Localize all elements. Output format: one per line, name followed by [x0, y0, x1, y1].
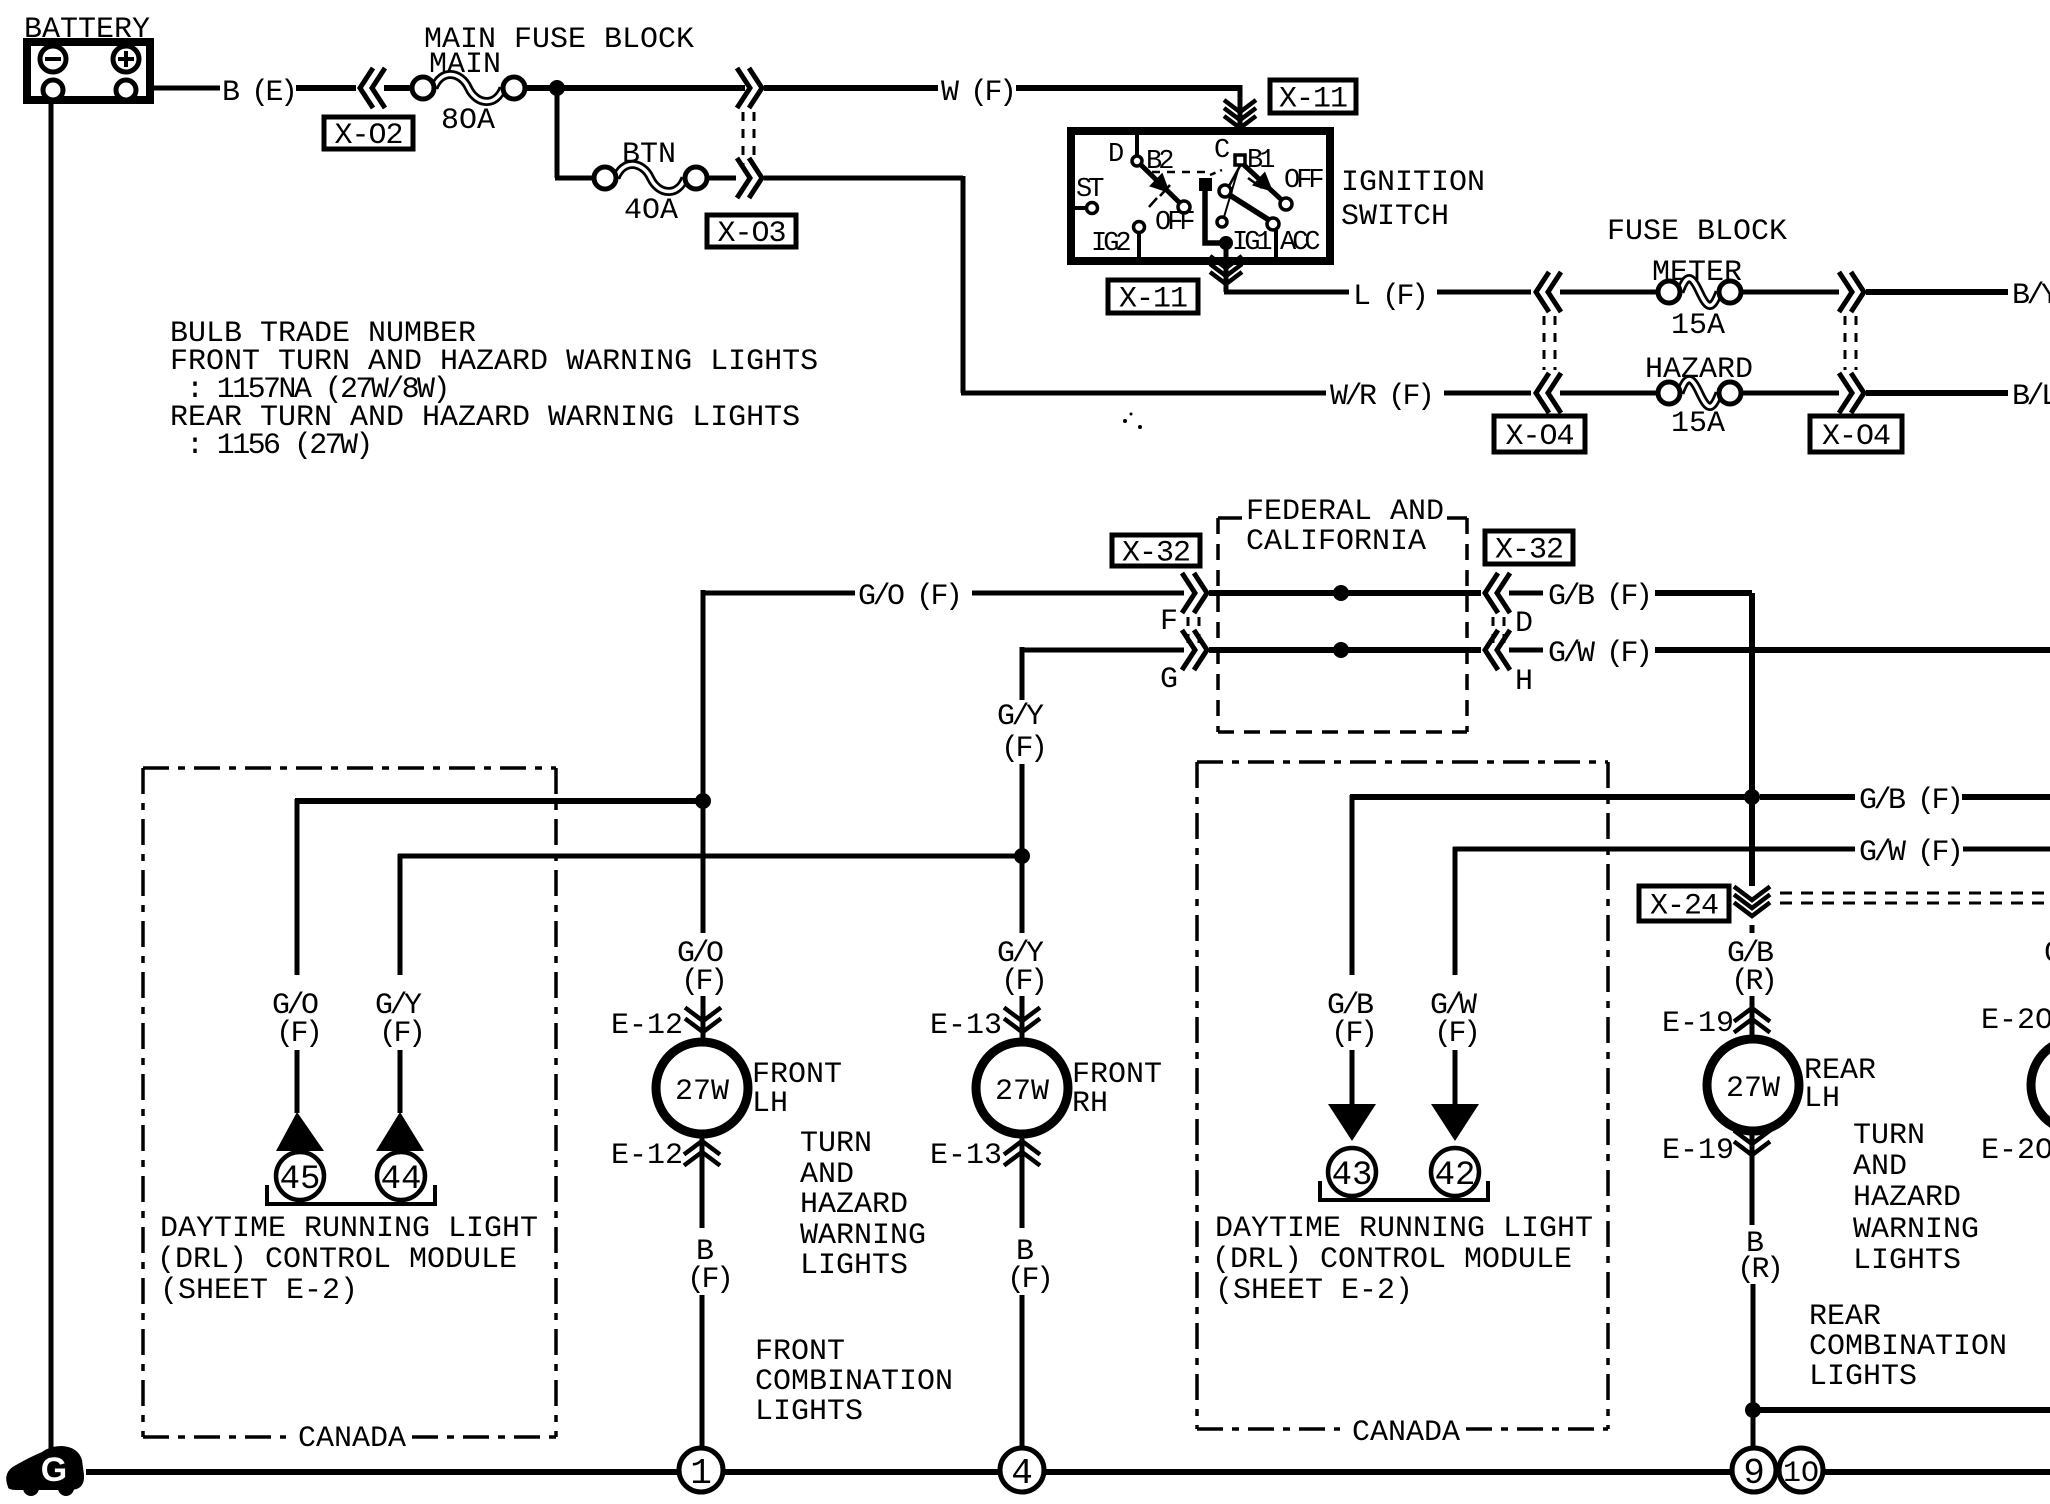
- svg-text:(F): (F): [1001, 732, 1045, 766]
- svg-text:E-2O: E-2O: [1981, 1004, 2050, 1038]
- svg-text:: 1156 (27W): : 1156 (27W): [186, 429, 371, 463]
- bulb FRONT LH: [656, 1042, 748, 1134]
- wire G/Y vertical upper: [1020, 650, 1025, 700]
- svg-text:27W: 27W: [995, 1075, 1049, 1109]
- contact mid: [1219, 185, 1231, 197]
- module pin circle 45: [276, 1152, 324, 1200]
- contact B2: [1132, 156, 1142, 166]
- svg-text:F: F: [1160, 605, 1178, 639]
- svg-text:B/Y: B/Y: [2012, 279, 2050, 313]
- wire module pin 45: [295, 799, 300, 975]
- wire G/W to right edge: [1655, 647, 2050, 653]
- wire ST stub: [1071, 206, 1088, 210]
- wire B(F) LH upper: [700, 1134, 705, 1228]
- wire BTN fuse to chevron: [707, 176, 736, 181]
- wire into federal box row1: [1209, 590, 1481, 596]
- svg-text:LH: LH: [752, 1087, 788, 1121]
- wire B(F) RH lower: [1020, 1295, 1025, 1450]
- svg-text:CANADA: CANADA: [1352, 1416, 1460, 1450]
- wire to B/L label: [1866, 390, 2008, 396]
- wire L to label: [1224, 290, 1349, 295]
- svg-text:IGNITION: IGNITION: [1341, 166, 1485, 200]
- wire pin 45 lower: [295, 1050, 300, 1113]
- wire module pin 44: [398, 854, 403, 975]
- module pin circle 44: [377, 1152, 425, 1200]
- bulb REAR RH partial: [2031, 1039, 2050, 1131]
- connector box X-32 right: [1485, 531, 1573, 564]
- svg-text:G/B (F): G/B (F): [1859, 784, 1961, 818]
- dashes B2 travel: [1152, 171, 1212, 174]
- arrow pin 44: [376, 1112, 424, 1151]
- svg-text:E-13: E-13: [930, 1009, 1002, 1043]
- ground car symbol: [6, 1446, 84, 1490]
- svg-text:B/L: B/L: [2012, 380, 2050, 414]
- ground circle 10: [1779, 1448, 1823, 1492]
- bulb FRONT RH: [976, 1042, 1068, 1134]
- fuse METER 15A: [1680, 278, 1719, 305]
- svg-text:ACC: ACC: [1280, 228, 1320, 258]
- connector dashed link X-03: [742, 112, 745, 165]
- svg-text:X-11: X-11: [1119, 283, 1187, 317]
- svg-text:G: G: [41, 1451, 67, 1489]
- svg-text:G/B (F): G/B (F): [1548, 580, 1650, 614]
- ground bus line: [86, 1469, 2050, 1475]
- wire pin 42 lower: [1453, 1050, 1458, 1104]
- connector chevrons X-04 right top: [1851, 272, 1864, 312]
- wire D stub: [1135, 133, 1139, 157]
- svg-text:COMBINATION: COMBINATION: [755, 1365, 953, 1399]
- wire pin 44 lower: [398, 1050, 403, 1113]
- connector box X-02: [324, 117, 413, 149]
- svg-text:B (E): B (E): [222, 76, 295, 110]
- connector chevrons X-04 left top: [1536, 272, 1549, 312]
- svg-text:X-O3: X-O3: [717, 217, 785, 251]
- svg-text:LIGHTS: LIGHTS: [1809, 1360, 1917, 1394]
- svg-text:AND: AND: [1853, 1150, 1907, 1184]
- svg-text:HAZARD: HAZARD: [800, 1188, 908, 1222]
- svg-text:OFF: OFF: [1284, 166, 1323, 196]
- svg-text:FEDERAL AND: FEDERAL AND: [1246, 495, 1444, 529]
- switch arm mid-ACC: [1228, 194, 1269, 220]
- svg-text:OFF: OFF: [1155, 208, 1194, 238]
- connector box X-11 bottom: [1108, 280, 1198, 313]
- svg-text:COMBINATION: COMBINATION: [1809, 1330, 2007, 1364]
- svg-text:H: H: [1515, 665, 1533, 699]
- wire G/B right to edge: [1962, 794, 2050, 800]
- svg-text:15A: 15A: [1671, 407, 1725, 441]
- connector chevrons X-03 top: [749, 68, 762, 108]
- connector box X-04 left: [1494, 416, 1585, 452]
- svg-text:X-32: X-32: [1495, 534, 1563, 568]
- wire to W(F) label: [764, 85, 938, 91]
- svg-text:SWITCH: SWITCH: [1341, 200, 1449, 234]
- connector dashed link X-04 left: [1543, 316, 1546, 370]
- wire to B/Y label: [1866, 289, 2008, 295]
- wire W/R to chevron: [1444, 391, 1531, 396]
- fuse BTN 40A: [616, 164, 685, 191]
- battery negative terminal: [40, 46, 66, 72]
- svg-text:G/Y: G/Y: [997, 700, 1044, 734]
- battery positive terminal: [113, 46, 139, 72]
- connector chevrons X-11 entry: [1224, 116, 1256, 128]
- junction dot rear: [1745, 1402, 1761, 1418]
- battery lower-left post: [43, 80, 63, 100]
- connector chevrons X-32 F: [1194, 573, 1207, 613]
- svg-text:RH: RH: [1072, 1087, 1108, 1121]
- connector E-12 top: [685, 1019, 721, 1033]
- wire pin 43 lower: [1350, 1050, 1355, 1104]
- svg-text:E-19: E-19: [1662, 1007, 1734, 1041]
- svg-text:CALIFORNIA: CALIFORNIA: [1246, 525, 1426, 559]
- svg-text:X-24: X-24: [1650, 890, 1718, 924]
- connector chevrons X-32 G: [1194, 630, 1207, 670]
- svg-text:WARNING: WARNING: [800, 1219, 926, 1253]
- dashes B1 travel: [1248, 178, 1262, 188]
- wire B(R) upper: [1750, 1131, 1755, 1225]
- svg-text:AND: AND: [800, 1158, 854, 1192]
- wire G/O vertical to E-12: [701, 996, 706, 1045]
- svg-text:27W: 27W: [1726, 1072, 1780, 1106]
- svg-text:REAR: REAR: [1809, 1300, 1881, 1334]
- junction dot G/B: [1744, 789, 1760, 805]
- svg-text:G/W (F): G/W (F): [1548, 637, 1650, 671]
- svg-text:FRONT: FRONT: [755, 1335, 845, 1369]
- svg-text:FUSE BLOCK: FUSE BLOCK: [1607, 215, 1787, 249]
- connector chevrons X-24: [1734, 903, 1770, 917]
- svg-text:W (F): W (F): [941, 76, 1014, 110]
- contact B1: [1235, 155, 1245, 165]
- switch arm B1-OFF: [1244, 165, 1286, 204]
- svg-text:G: G: [1160, 663, 1178, 697]
- svg-text:4OA: 4OA: [624, 194, 678, 228]
- connector chevrons X-02: [360, 68, 373, 108]
- svg-text:G/O (F): G/O (F): [858, 580, 960, 614]
- wire IG2 stub: [1137, 233, 1141, 257]
- arrow pin 43: [1328, 1104, 1376, 1141]
- svg-text:X-O2: X-O2: [334, 119, 402, 153]
- connector chevrons X-32 H: [1485, 630, 1498, 670]
- wire to METER fuse: [1560, 290, 1658, 295]
- noise specks: [1123, 419, 1127, 423]
- svg-text:E-2O: E-2O: [1981, 1134, 2050, 1168]
- connector dashed link X-32 right: [1492, 617, 1495, 646]
- svg-text:IG2: IG2: [1091, 229, 1130, 259]
- svg-text:LIGHTS: LIGHTS: [1853, 1244, 1961, 1278]
- wire HAZARD fuse to chevron: [1741, 391, 1839, 396]
- svg-text:(F): (F): [681, 965, 725, 999]
- connector E-13 bottom: [1004, 1141, 1040, 1155]
- wire fuse to junction: [524, 85, 745, 91]
- module pin circle 42: [1431, 1148, 1479, 1196]
- svg-text:1: 1: [690, 1453, 712, 1494]
- connector chevrons X-11 exit: [1210, 272, 1242, 284]
- svg-text:X-32: X-32: [1122, 537, 1190, 571]
- wire G/Y corner to chevron: [1020, 647, 1025, 653]
- svg-text:WARNING: WARNING: [1853, 1213, 1979, 1247]
- svg-text:(R): (R): [1737, 1253, 1781, 1287]
- svg-text:X-11: X-11: [1279, 83, 1347, 117]
- svg-text:HAZARD: HAZARD: [1645, 353, 1753, 387]
- federal california dashed box: [1218, 516, 1242, 520]
- junction dot main: [549, 80, 565, 96]
- svg-text:(SHEET E-2): (SHEET E-2): [160, 1274, 358, 1308]
- svg-text:E-19: E-19: [1662, 1134, 1734, 1168]
- connector dashed link X-32 left: [1187, 617, 1190, 646]
- wire chevron to fuse: [384, 85, 412, 91]
- wire G/Y to E-13: [1020, 996, 1025, 1045]
- wire L to chevron: [1437, 290, 1531, 295]
- svg-text:(F): (F): [1001, 965, 1045, 999]
- fuse HAZARD 15A: [1680, 379, 1719, 406]
- svg-text:27W: 27W: [675, 1075, 729, 1109]
- svg-text:LH: LH: [1804, 1082, 1840, 1116]
- junction dot G/O: [695, 793, 711, 809]
- svg-text:15A: 15A: [1671, 309, 1725, 343]
- connector chevrons X-32 D: [1485, 573, 1498, 613]
- svg-text:8OA: 8OA: [441, 104, 495, 138]
- wire rear bus right: [1753, 1407, 2050, 1413]
- wire junction to BTN fuse: [555, 88, 560, 178]
- bracket right module: [1320, 1181, 1488, 1200]
- junction dot row2: [1333, 642, 1349, 658]
- svg-text:TURN: TURN: [1853, 1119, 1925, 1153]
- connector box X-32 left: [1112, 535, 1200, 566]
- wire B(F) LH lower: [700, 1295, 705, 1450]
- wire BTN to corner: [764, 176, 963, 181]
- svg-text:TURN: TURN: [800, 1127, 872, 1161]
- svg-text:IG1: IG1: [1232, 228, 1271, 258]
- switch arm B2-OFF: [1140, 164, 1184, 207]
- canada box right dashed border: [1197, 760, 1608, 764]
- svg-text:(SHEET E-2): (SHEET E-2): [1215, 1274, 1413, 1308]
- svg-text:LIGHTS: LIGHTS: [800, 1249, 908, 1283]
- svg-text:DAYTIME RUNNING LIGHT: DAYTIME RUNNING LIGHT: [1215, 1212, 1593, 1246]
- wire to HAZARD fuse: [1560, 391, 1658, 396]
- wire to G/W label: [1509, 648, 1543, 653]
- svg-text:LIGHTS: LIGHTS: [755, 1395, 863, 1429]
- svg-text:E-13: E-13: [930, 1139, 1002, 1173]
- svg-text:D: D: [1515, 607, 1533, 641]
- wire battery to B(E): [150, 86, 220, 91]
- connector box X-11 top: [1270, 80, 1356, 113]
- contact IG1 upper: [1217, 217, 1227, 227]
- connector E-12 bottom: [684, 1141, 720, 1155]
- junction dot G/Y: [1014, 848, 1030, 864]
- wire W(F) to ignition corner: [1016, 85, 1240, 91]
- connector box X-04 right: [1810, 416, 1902, 452]
- wire module pin 42: [1453, 847, 1458, 975]
- connector dashed X-24: [1780, 892, 2050, 895]
- wire G/B to corner: [1655, 590, 1752, 596]
- connector chevrons X-04 left bottom: [1536, 373, 1549, 413]
- svg-text:4: 4: [1011, 1453, 1033, 1494]
- fuse MAIN 80A: [434, 74, 503, 101]
- battery box: [27, 42, 150, 100]
- svg-text:W/R (F): W/R (F): [1330, 380, 1432, 414]
- svg-text:1O: 1O: [1783, 1457, 1819, 1491]
- wire G/Y vertical mid: [1020, 764, 1025, 933]
- connector E-13 top: [1004, 1019, 1040, 1033]
- svg-text:G/W: G/W: [2044, 937, 2050, 971]
- wire B(F) RH upper: [1020, 1134, 1025, 1228]
- junction dot row1: [1333, 585, 1349, 601]
- wire G/O corner to label: [701, 590, 706, 805]
- svg-text:(R): (R): [1731, 965, 1775, 999]
- wire G/O to chevron: [972, 591, 1184, 596]
- svg-text:ST: ST: [1076, 175, 1104, 205]
- ground circle 4: [1000, 1448, 1044, 1492]
- bulb REAR LH: [1707, 1039, 1799, 1131]
- svg-text:G/W (F): G/W (F): [1859, 836, 1961, 870]
- svg-text:HAZARD: HAZARD: [1853, 1181, 1961, 1215]
- connector E-19 bottom: [1734, 1142, 1770, 1156]
- svg-text:CANADA: CANADA: [298, 1422, 406, 1456]
- wire G/B label left seg: [1760, 794, 1855, 800]
- wire battery to ground: [49, 100, 54, 1452]
- contact IG2: [1134, 222, 1145, 233]
- connector box X-03: [707, 215, 796, 247]
- elbow square to IG1: [1205, 191, 1220, 243]
- wire G/O vertical upper: [701, 801, 706, 933]
- svg-text:43: 43: [1332, 1157, 1373, 1195]
- contact IG1 dot: [1219, 236, 1233, 250]
- connector chevrons X-03 bottom: [749, 158, 762, 198]
- arrow pin 45: [276, 1112, 324, 1151]
- ignition switch box: [1071, 131, 1330, 261]
- wire to G/B label: [1509, 591, 1543, 596]
- battery lower-right post: [116, 80, 136, 100]
- wire G/B vertical: [1749, 593, 1755, 886]
- wire IG1 down: [1224, 243, 1229, 292]
- wire corner to W/R label: [961, 391, 1326, 396]
- wire G/B R to E-19: [1750, 925, 1755, 933]
- svg-text:L (F): L (F): [1353, 280, 1426, 314]
- bracket left module: [267, 1185, 435, 1204]
- connector E-19 top: [1734, 1008, 1770, 1022]
- ground circle 1: [679, 1448, 723, 1492]
- svg-text:45: 45: [280, 1161, 321, 1199]
- wire METER fuse to chevron: [1741, 290, 1839, 295]
- svg-text:(F): (F): [379, 1017, 423, 1051]
- canada box left dashed border: [143, 766, 556, 770]
- svg-text:E-12: E-12: [611, 1009, 683, 1043]
- ground circle 9: [1732, 1448, 1776, 1492]
- wire B(E) to connector X-02: [296, 85, 356, 91]
- svg-text:(F): (F): [276, 1017, 320, 1051]
- svg-text:(DRL) CONTROL MODULE: (DRL) CONTROL MODULE: [157, 1243, 517, 1277]
- svg-text:(F): (F): [1007, 1263, 1051, 1297]
- connector dashed link X-04 right: [1844, 316, 1847, 370]
- black square: [1199, 178, 1212, 191]
- svg-text:9: 9: [1743, 1453, 1765, 1494]
- svg-text:X-O4: X-O4: [1822, 420, 1890, 454]
- module pin circle 43: [1328, 1148, 1376, 1196]
- svg-text:44: 44: [381, 1161, 422, 1199]
- svg-text:(F): (F): [687, 1263, 731, 1297]
- contact ST: [1087, 203, 1098, 214]
- svg-text:X-O4: X-O4: [1505, 420, 1573, 454]
- connector chevrons X-04 right bottom: [1851, 373, 1864, 413]
- svg-text:(F): (F): [1331, 1017, 1375, 1051]
- svg-text:(F): (F): [1434, 1017, 1478, 1051]
- arrow pin 42: [1431, 1104, 1479, 1141]
- svg-text:42: 42: [1435, 1157, 1476, 1195]
- wire module pin 43: [1350, 795, 1355, 975]
- svg-text:DAYTIME RUNNING LIGHT: DAYTIME RUNNING LIGHT: [160, 1212, 538, 1246]
- svg-text:E-12: E-12: [611, 1139, 683, 1173]
- connector box X-24: [1639, 886, 1729, 921]
- wire into federal box row2: [1209, 647, 1481, 653]
- svg-text:(DRL) CONTROL MODULE: (DRL) CONTROL MODULE: [1212, 1243, 1572, 1277]
- wire B(R) lower: [1751, 1284, 1756, 1448]
